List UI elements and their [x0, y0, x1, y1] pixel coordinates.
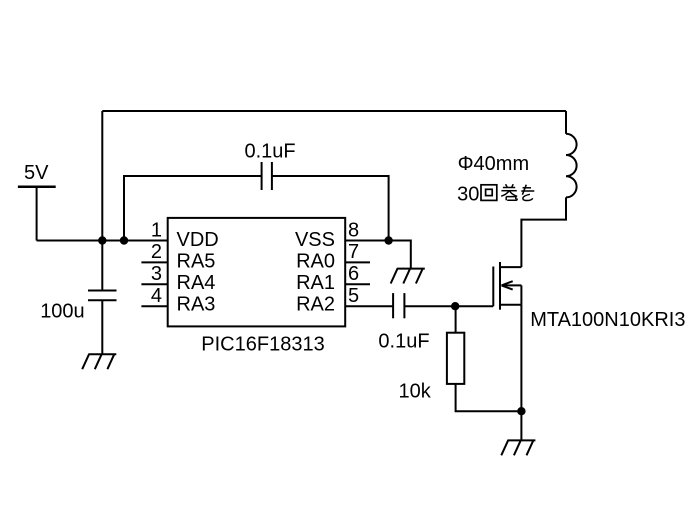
node junction at bypass branch — [120, 236, 128, 244]
glyph kanji kai (回) — [481, 185, 497, 201]
svg-text:6: 6 — [348, 263, 359, 285]
ground (VSS) — [391, 269, 425, 284]
wire top rail — [102, 110, 566, 112]
svg-text:1: 1 — [151, 219, 162, 241]
capacitor C3 0.1uF (coupling) — [393, 293, 404, 318]
svg-text:3: 3 — [151, 263, 162, 285]
glyph kanji maki (巻) — [501, 184, 517, 200]
svg-text:PIC16F18313: PIC16F18313 — [201, 334, 324, 356]
svg-text:VSS: VSS — [295, 229, 335, 251]
svg-text:MTA100N10KRI3: MTA100N10KRI3 — [530, 309, 685, 331]
wire RA2 pin 5 to coupling cap — [345, 305, 393, 307]
svg-text:7: 7 — [348, 241, 359, 263]
svg-text:RA4: RA4 — [177, 272, 216, 294]
pin 2 stub — [141, 261, 167, 263]
wire left vertical riser — [101, 111, 103, 291]
svg-text:RA1: RA1 — [296, 272, 335, 294]
svg-text:5V: 5V — [24, 162, 49, 184]
wire source to ground — [520, 305, 522, 441]
svg-text:RA5: RA5 — [177, 251, 216, 273]
pin 6 stub — [345, 283, 370, 285]
ground (source) — [501, 440, 535, 455]
capacitor C1 100u — [88, 291, 117, 301]
op-amp U1 PIC16F18313 body — [168, 218, 346, 327]
node junction at source/ground — [517, 407, 525, 415]
pin 7 stub — [345, 261, 370, 263]
pin 3 stub — [141, 283, 167, 285]
svg-text:5: 5 — [348, 285, 359, 307]
node junction at gate/resistor — [451, 302, 459, 310]
svg-text:30: 30 — [457, 184, 479, 206]
capacitor C2 0.1uF (bypass) — [262, 162, 272, 190]
svg-text:RA0: RA0 — [296, 251, 335, 273]
power symbol 5V — [18, 185, 56, 188]
inductor L1 coil — [566, 134, 577, 198]
svg-text:RA2: RA2 — [296, 293, 335, 315]
svg-text:RA3: RA3 — [177, 293, 216, 315]
wire resistor top — [455, 306, 457, 333]
wire cap to gate — [404, 305, 493, 307]
wire bypass branch right riser — [272, 176, 389, 241]
svg-text:VDD: VDD — [177, 229, 219, 251]
svg-text:10k: 10k — [399, 381, 432, 403]
wire 5V to VDD rail — [37, 240, 168, 242]
svg-text:0.1uF: 0.1uF — [245, 141, 296, 163]
svg-text:100u: 100u — [40, 301, 84, 323]
svg-text:4: 4 — [151, 285, 162, 307]
wire VSS pin 8 to ground branch — [345, 241, 411, 269]
wire resistor bottom — [456, 384, 522, 411]
wire drain to coil — [521, 197, 566, 267]
svg-text:Φ40mm: Φ40mm — [458, 153, 530, 175]
glyph hiragana ki (き) — [521, 185, 534, 201]
wire bypass branch left riser — [124, 176, 262, 241]
wire 100u to ground — [101, 300, 103, 354]
transistor Q1 MTA100N10KRI3 — [493, 262, 521, 310]
wire 5V drop — [36, 187, 38, 241]
svg-text:8: 8 — [348, 219, 359, 241]
node junction at VSS pin — [384, 236, 392, 244]
wire coil top to rail — [565, 111, 567, 134]
svg-text:2: 2 — [151, 241, 162, 263]
ground (below 100u) — [82, 354, 116, 369]
svg-text:0.1uF: 0.1uF — [378, 330, 429, 352]
pin 4 stub — [141, 305, 167, 307]
resistor R1 10k — [447, 333, 464, 384]
node junction at 5V rail / riser — [98, 236, 106, 244]
